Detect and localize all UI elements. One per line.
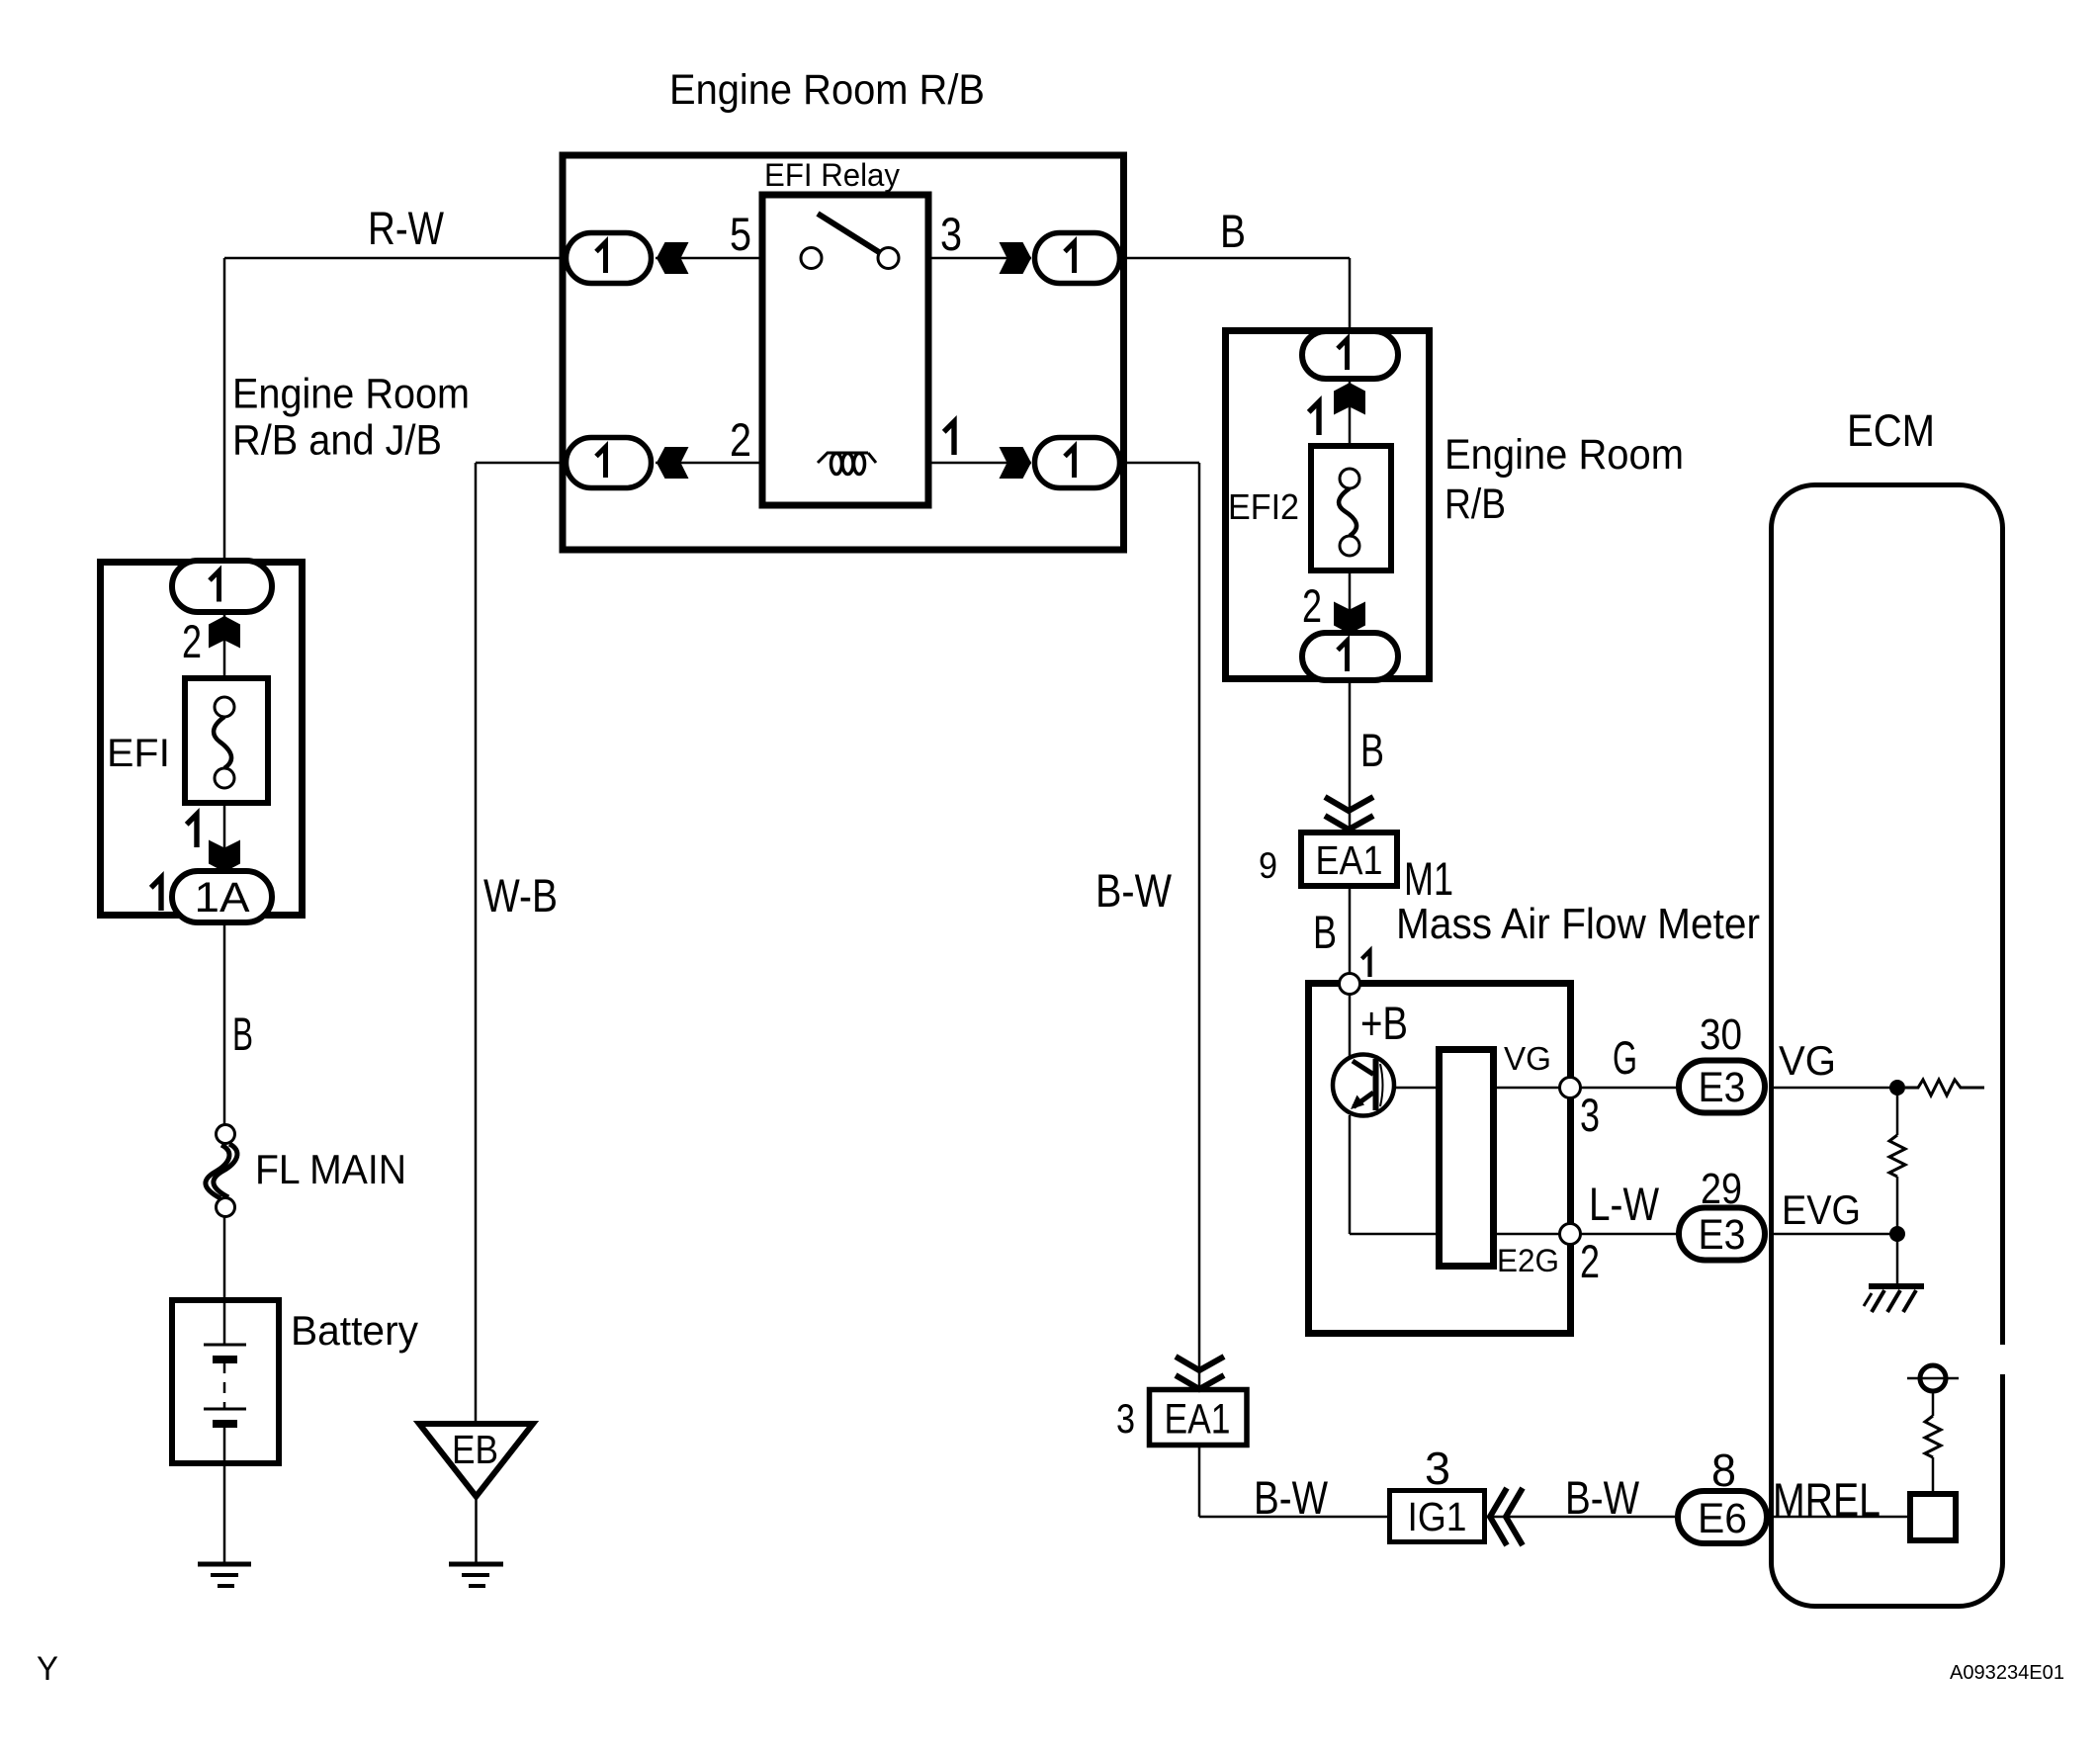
wire B from FL MAIN to battery plate — [223, 1207, 226, 1345]
svg-text:30: 30 — [1700, 1010, 1742, 1059]
wire B-W bottom run from EA1 to IG1 — [1199, 1516, 1389, 1519]
svg-text:EA1: EA1 — [1165, 1396, 1231, 1444]
FL MAIN fusible link top circle — [217, 1125, 235, 1144]
wire transistor base to sense element — [1393, 1087, 1436, 1090]
svg-text:Engine Room R/B: Engine Room R/B — [669, 66, 985, 114]
svg-text:R/B: R/B — [1444, 481, 1506, 528]
svg-text:R-W: R-W — [368, 202, 445, 254]
connector oval 1, relay pin 3 row right — [1035, 233, 1120, 284]
svg-text:B: B — [232, 1008, 253, 1060]
wire resistor bottom to EVG junction — [1896, 1177, 1899, 1234]
EA1 connector box 9 (junction connector) — [1301, 833, 1397, 886]
EFI Relay box — [762, 195, 928, 505]
wire EFI2 fuse upper lead — [1349, 355, 1352, 479]
wire E2G horizontal inside mass air flow meter — [1350, 1233, 1570, 1236]
svg-text:EFI: EFI — [107, 732, 170, 775]
svg-text:VG: VG — [1779, 1037, 1836, 1084]
arrow chevron into relay pin5 oval — [656, 242, 689, 274]
svg-text:EVG: EVG — [1782, 1186, 1861, 1233]
EB ground triangle — [419, 1424, 533, 1497]
wire B from relay pin 3 oval to EFI2 drop — [1124, 257, 1350, 260]
wire EFI2 fuse lower lead, B drop to EA1 connector 9 — [1349, 546, 1352, 984]
svg-text:1A: 1A — [195, 874, 250, 921]
wire relay coil row to B-W drop — [1124, 462, 1199, 465]
EFI fuse element squiggle — [214, 717, 231, 768]
svg-text:E6: E6 — [1698, 1495, 1747, 1542]
wire MREL from E6 into ECM driver square — [1771, 1516, 1910, 1519]
wire transistor emitter down to E2G row — [1349, 1115, 1352, 1234]
svg-text:B: B — [1360, 724, 1384, 776]
FL MAIN squiggle element — [206, 1145, 229, 1198]
connector oval E3 pin 30 — [1679, 1061, 1765, 1113]
svg-text:B: B — [1220, 205, 1246, 257]
wire battery negative lead to ground — [223, 1424, 226, 1564]
svg-text:Mass Air Flow Meter: Mass Air Flow Meter — [1396, 900, 1760, 948]
pin 1 relay — [944, 422, 954, 455]
svg-text:VG: VG — [1504, 1040, 1551, 1077]
junction dot EVG — [1889, 1226, 1905, 1242]
pin 1 EFI2 fuse — [1309, 402, 1319, 435]
Mass Air Flow Meter box — [1309, 984, 1571, 1334]
svg-text:L-W: L-W — [1589, 1178, 1660, 1230]
svg-text:Y: Y — [37, 1650, 58, 1688]
relay switch contact circle pin 3 side — [878, 248, 899, 269]
svg-text:A093234E01: A093234E01 — [1950, 1662, 2064, 1684]
svg-text:EB: EB — [452, 1427, 498, 1472]
EFI fuse body — [185, 678, 268, 803]
wire vertical drop into EFI2 block — [1349, 258, 1352, 336]
MAF sensing element rectangle — [1440, 1050, 1494, 1267]
wire relay coil row inside box left lead — [656, 462, 819, 465]
svg-text:Engine Room: Engine Room — [1444, 431, 1684, 479]
ignition feed circle symbol inside ECM — [1920, 1365, 1946, 1391]
svg-text:B-W: B-W — [1565, 1471, 1640, 1524]
ground symbol under EB — [449, 1564, 503, 1586]
wire VG from element to node 3 — [1497, 1087, 1570, 1090]
wire resistor to MREL driver square — [1932, 1457, 1935, 1494]
ECM rounded box with right edge gap — [1772, 485, 2003, 1607]
wire +B vertical inside mass air flow meter — [1349, 984, 1352, 1056]
svg-text:B: B — [1313, 906, 1337, 958]
wire-cross chevrons above EA1 3 — [1176, 1357, 1224, 1389]
connector oval 1, relay pin 5 row left — [567, 233, 652, 284]
svg-text:3: 3 — [940, 208, 962, 260]
connector oval 1 at top of EFI block — [172, 561, 272, 612]
EFI2 fuse body — [1311, 446, 1391, 570]
wire stub through ignition-switch circle symbol — [1907, 1377, 1959, 1380]
EFI fuse bottom terminal circle — [215, 768, 234, 788]
pin 1 left of 1A oval — [151, 878, 161, 911]
resistor between VG and EVG junctions — [1889, 1135, 1905, 1177]
svg-text:2: 2 — [1302, 579, 1322, 632]
svg-text:FL MAIN: FL MAIN — [255, 1146, 406, 1192]
arrow chevron down to EFI2 bottom oval — [1334, 602, 1365, 635]
svg-text:+B: +B — [1360, 997, 1408, 1049]
EA1 connector box 3 (junction connector) — [1150, 1390, 1248, 1446]
svg-text:3: 3 — [1580, 1089, 1600, 1141]
svg-text:Engine Room: Engine Room — [232, 371, 470, 418]
IG1 fuse box — [1390, 1491, 1485, 1542]
battery top cell plates — [204, 1344, 246, 1347]
connector oval 1, relay coil row right — [1035, 438, 1120, 488]
wire relay coil row left lead outside box (W-B) — [476, 462, 562, 465]
svg-text:G: G — [1613, 1031, 1637, 1084]
arrow chevron into relay coil row right oval — [1000, 447, 1032, 479]
svg-text:B-W: B-W — [1095, 864, 1173, 917]
wire relay contact row inside Engine Room R/B — [656, 257, 1031, 260]
wire-cross chevrons right of IG1 — [1490, 1488, 1523, 1545]
wire W-B vertical down to EB ground point — [475, 463, 478, 1424]
junction dot VG — [1889, 1080, 1905, 1096]
EFI2 fuse bottom terminal circle — [1340, 536, 1359, 556]
wire relay coil row inside box right lead — [875, 462, 1031, 465]
svg-text:ECM: ECM — [1847, 405, 1935, 456]
pin 1 EFI fuse — [187, 815, 197, 847]
wire from EB triangle apex to ground — [475, 1496, 478, 1564]
EFI fuse top terminal circle — [215, 697, 234, 717]
connector oval 1A at bottom of EFI block — [172, 871, 272, 922]
svg-text:EFI Relay: EFI Relay — [764, 157, 900, 193]
svg-text:E3: E3 — [1699, 1211, 1746, 1259]
wire R-W horizontal from battery column to Engine Room R/B box — [224, 257, 562, 260]
resistor above MREL driver — [1925, 1416, 1941, 1457]
connector oval E3 pin 29 — [1679, 1208, 1765, 1261]
EFI fuse block box (Engine Room R/B and J/B) — [101, 563, 303, 916]
node 2 circle E2G on MAF box right edge — [1560, 1224, 1581, 1245]
Engine Room R/B box (EFI2) — [1226, 331, 1430, 679]
EFI2 fuse element squiggle — [1339, 488, 1356, 536]
arrow chevron into relay coil row left oval — [656, 447, 689, 479]
connector oval 1 at top of EFI2 block — [1302, 331, 1398, 379]
svg-text:E2G: E2G — [1497, 1243, 1559, 1278]
wire EFI fuse upper lead — [223, 562, 226, 707]
wire B-W vertical drop to EA1 connector 3 — [1198, 463, 1201, 1517]
svg-text:Battery: Battery — [291, 1307, 418, 1354]
wire battery cell dashed link — [223, 1362, 226, 1408]
svg-text:9: 9 — [1259, 845, 1277, 886]
connector oval E6 pin 8 — [1678, 1491, 1767, 1543]
svg-text:MREL: MREL — [1773, 1473, 1881, 1526]
node 1 circle on MAF box top — [1340, 974, 1360, 995]
svg-text:E3: E3 — [1699, 1064, 1746, 1111]
svg-text:W-B: W-B — [483, 869, 558, 921]
Engine Room R/B box (top) — [563, 155, 1124, 550]
svg-text:IG1: IG1 — [1408, 1494, 1467, 1539]
wire junction VG down to pull resistor — [1896, 1088, 1899, 1135]
wire circle symbol down to resistor — [1932, 1391, 1935, 1416]
wire B-W from IG1 to E6 connector 8 — [1484, 1516, 1675, 1519]
svg-text:3: 3 — [1425, 1443, 1450, 1494]
chassis ground hatch inside ECM — [1864, 1286, 1924, 1312]
battery box — [172, 1300, 279, 1463]
MREL driver square inside ECM — [1910, 1494, 1956, 1540]
node 3 circle VG on MAF box right edge — [1560, 1078, 1581, 1098]
svg-text:8: 8 — [1711, 1445, 1736, 1496]
svg-text:5: 5 — [730, 208, 751, 260]
wire EVG junction down to chassis ground — [1896, 1234, 1899, 1286]
svg-text:29: 29 — [1701, 1165, 1742, 1213]
svg-text:2: 2 — [1580, 1235, 1600, 1287]
ground symbol under battery — [198, 1564, 251, 1586]
svg-text:M1: M1 — [1404, 852, 1453, 905]
wire L-W from node 2 to E3 connector 29 — [1570, 1233, 1678, 1236]
wire EVG inside ECM to junction — [1771, 1233, 1897, 1236]
wire EFI fuse lower lead down to FL MAIN — [223, 778, 226, 1134]
svg-text:B-W: B-W — [1254, 1471, 1329, 1524]
wire G from node 3 to E3 connector 30 — [1570, 1087, 1678, 1090]
svg-text:3: 3 — [1116, 1395, 1135, 1442]
wire vertical from R-W corner down to EFI fuse block — [223, 258, 226, 562]
svg-text:R/B and J/B: R/B and J/B — [232, 417, 442, 465]
connector oval 1 at bottom of EFI2 block — [1302, 633, 1398, 680]
arrow chevron up to EFI block pin 2 — [209, 616, 240, 649]
transistor Q inside MAF — [1333, 1055, 1394, 1116]
relay coil — [818, 453, 876, 463]
arrow chevron up to EFI2 pin 1 — [1334, 383, 1365, 415]
arrow chevron down to EFI 1A oval — [209, 840, 240, 873]
svg-text:EA1: EA1 — [1316, 837, 1383, 883]
wire VG inside ECM to junction — [1771, 1087, 1897, 1090]
svg-text:2: 2 — [730, 413, 751, 466]
FL MAIN fusible link bottom circle — [217, 1198, 235, 1217]
relay switch contact circle pin 5 side — [801, 248, 822, 269]
svg-text:EFI2: EFI2 — [1228, 486, 1299, 527]
connector oval 1, relay coil row left — [567, 438, 652, 488]
battery bottom cell plates — [204, 1408, 246, 1411]
EFI2 fuse top terminal circle — [1340, 469, 1359, 488]
svg-text:2: 2 — [182, 615, 202, 667]
wire-cross chevrons above EA1 9 — [1325, 797, 1373, 830]
relay switch arm — [818, 214, 879, 252]
resistor stub right of VG junction — [1905, 1080, 1984, 1096]
pin 1 MAF — [1361, 951, 1369, 977]
arrow chevron into relay pin3 oval — [1000, 242, 1032, 274]
